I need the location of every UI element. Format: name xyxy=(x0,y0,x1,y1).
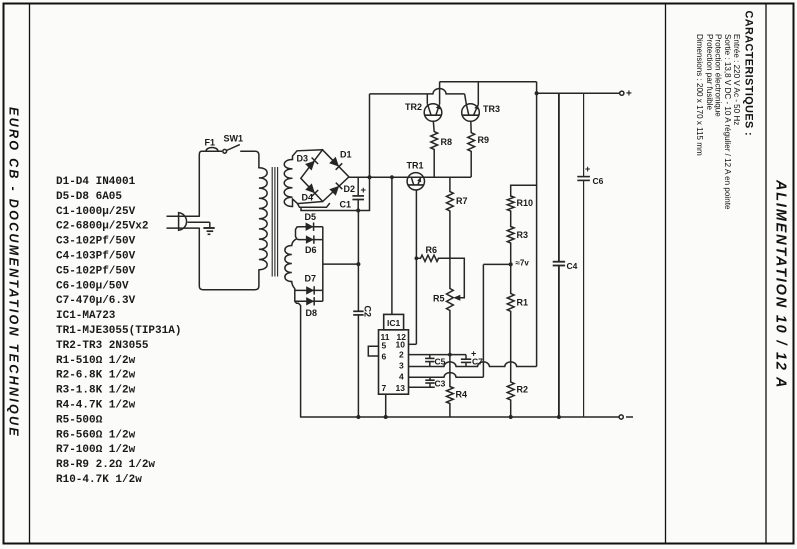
bridge rectifier diamond xyxy=(301,150,349,202)
wire sense rail xyxy=(536,82,538,367)
wire 7v tap xyxy=(483,263,510,265)
transistor TR2 xyxy=(424,104,442,122)
wire output plus xyxy=(537,92,620,94)
capacitor C1 xyxy=(357,177,359,195)
capacitor C3 xyxy=(429,377,431,380)
svg-text:TR1: TR1 xyxy=(407,161,424,171)
svg-text:IC1-MA723: IC1-MA723 xyxy=(56,310,116,322)
wire pin4 riser xyxy=(482,264,484,377)
svg-text:CARACTERISTIQUES :: CARACTERISTIQUES : xyxy=(743,11,755,137)
wire bridge enclosure xyxy=(293,150,323,160)
svg-text:C7: C7 xyxy=(472,357,483,367)
svg-text:D4: D4 xyxy=(302,193,314,203)
wire primary loop xyxy=(199,151,204,216)
svg-text:EURO CB - DOCUMENTATION TECHNI: EURO CB - DOCUMENTATION TECHNIQUE xyxy=(6,107,20,438)
svg-text:C4-103Pf/50V: C4-103Pf/50V xyxy=(56,251,136,263)
svg-text:D8: D8 xyxy=(306,308,318,318)
svg-text:D7: D7 xyxy=(305,274,317,284)
node output rail xyxy=(535,91,539,95)
node TR1 base xyxy=(390,175,394,179)
svg-text:5: 5 xyxy=(382,340,387,350)
svg-text:R2-6.8K 1/2w: R2-6.8K 1/2w xyxy=(56,370,136,382)
switch SW1 xyxy=(223,149,227,153)
node C2 tap xyxy=(356,262,360,266)
svg-text:D5: D5 xyxy=(305,212,317,222)
wire pin 7 to ground bus xyxy=(385,394,387,417)
svg-text:D2: D2 xyxy=(344,184,356,194)
svg-text:7: 7 xyxy=(382,383,387,393)
node bus R2 xyxy=(509,415,513,419)
svg-text:C7-470µ/6.3V: C7-470µ/6.3V xyxy=(56,295,136,307)
svg-text:TR1-MJE3055(TIP31A): TR1-MJE3055(TIP31A) xyxy=(56,325,181,337)
svg-text:R5-500Ω: R5-500Ω xyxy=(56,414,103,426)
svg-text:R9: R9 xyxy=(478,135,490,145)
svg-text:C4: C4 xyxy=(567,261,578,271)
transformer core xyxy=(271,167,273,277)
diode D3 xyxy=(305,161,315,171)
svg-text:C6-100µ/50V: C6-100µ/50V xyxy=(56,280,129,292)
svg-text:C5-102Pf/50V: C5-102Pf/50V xyxy=(56,265,136,277)
wire D7 D8 cell xyxy=(292,282,301,418)
wire R5 wiper xyxy=(439,258,465,298)
svg-text:TR2-TR3 2N3055: TR2-TR3 2N3055 xyxy=(56,340,149,352)
wire base rail xyxy=(370,93,434,95)
svg-text:R3-1.8K 1/2w: R3-1.8K 1/2w xyxy=(56,385,136,397)
svg-text:R3: R3 xyxy=(517,230,529,240)
column rule characteristics/title xyxy=(765,4,767,543)
resistor R1 xyxy=(510,264,512,293)
svg-text:10: 10 xyxy=(396,339,406,349)
resistor R4 xyxy=(447,387,454,404)
resistor R3 xyxy=(510,211,512,227)
mains plug P1 xyxy=(179,213,187,231)
svg-text:C1-1000µ/25V: C1-1000µ/25V xyxy=(56,206,136,218)
svg-text:F1: F1 xyxy=(205,138,216,148)
svg-text:SW1: SW1 xyxy=(224,134,244,144)
svg-text:3: 3 xyxy=(399,361,404,371)
svg-text:4: 4 xyxy=(399,371,404,381)
wire TR1 base xyxy=(391,177,393,314)
diode D8 xyxy=(306,297,314,305)
wire pin 2 xyxy=(409,354,467,356)
svg-text:R7: R7 xyxy=(456,196,468,206)
svg-text:R1-510Ω 1/2w: R1-510Ω 1/2w xyxy=(56,355,136,367)
wire pin 3 xyxy=(409,366,445,368)
node 7v xyxy=(509,262,513,266)
capacitor C4 xyxy=(558,93,560,261)
svg-text:6: 6 xyxy=(382,351,387,361)
transistor TR3 xyxy=(462,104,480,122)
diode D1 xyxy=(329,157,339,167)
svg-text:Entrée : 220 V Ac - 50 Hz: Entrée : 220 V Ac - 50 Hz xyxy=(732,34,741,125)
wire D6-D7 junction to C2 xyxy=(323,263,359,265)
svg-text:R6: R6 xyxy=(426,245,438,255)
transformer secondary winding 2 xyxy=(285,246,292,282)
svg-text:R5: R5 xyxy=(433,294,445,304)
node R6 tap xyxy=(415,256,419,260)
wire collector rail xyxy=(440,81,537,83)
svg-text:R4: R4 xyxy=(456,390,468,400)
diode D2 xyxy=(329,186,339,196)
svg-text:+: + xyxy=(361,185,367,196)
svg-text:13: 13 xyxy=(396,383,406,393)
op-amp regulator IC1 xyxy=(379,330,409,394)
svg-text:R10: R10 xyxy=(517,198,534,208)
wire pins 5-6 strap xyxy=(368,346,378,356)
transformer primary winding xyxy=(259,168,267,270)
wire pin 4 xyxy=(409,376,445,378)
wire pin 13 xyxy=(409,386,435,388)
svg-text:R8-R9 2.2Ω 1/2w: R8-R9 2.2Ω 1/2w xyxy=(56,459,155,471)
wire ground bus xyxy=(301,416,619,418)
node bus C2 xyxy=(356,415,360,419)
terminal output - xyxy=(619,415,623,419)
wire node riser xyxy=(369,94,371,211)
svg-text:R10-4.7K 1/2w: R10-4.7K 1/2w xyxy=(56,474,142,486)
svg-text:2: 2 xyxy=(399,349,404,359)
diode D5 xyxy=(306,223,314,231)
svg-text:Protection par fusible: Protection par fusible xyxy=(705,34,714,111)
wire D5 D6 cell xyxy=(296,227,300,240)
wire secondary2 top xyxy=(292,239,296,245)
svg-text:D6: D6 xyxy=(305,245,317,255)
resistor R8 xyxy=(431,132,438,150)
svg-text:TR2: TR2 xyxy=(405,102,422,112)
fuse F1 xyxy=(206,147,218,151)
svg-text:C6: C6 xyxy=(593,176,604,186)
svg-text:R2: R2 xyxy=(517,385,529,395)
column rule left xyxy=(29,4,31,543)
node C1 bottom xyxy=(356,209,360,213)
svg-text:Sortie : 13,8 V DC - 10 A régu: Sortie : 13,8 V DC - 10 A régulier / 12 … xyxy=(723,34,732,210)
node pin2/R5 xyxy=(448,353,452,357)
svg-text:+: + xyxy=(585,164,590,174)
ground xyxy=(188,221,210,223)
resistor R6 xyxy=(416,257,420,259)
svg-text:C5: C5 xyxy=(435,357,446,367)
resistor R2 xyxy=(507,382,514,400)
svg-text:≈7v: ≈7v xyxy=(516,259,530,268)
resistor R7 xyxy=(449,177,451,191)
wire pin 10 xyxy=(409,343,417,345)
node bridge output xyxy=(368,175,372,179)
svg-text:ALIMENTATION 10 / 12 A: ALIMENTATION 10 / 12 A xyxy=(773,179,789,389)
wire bridge bottom xyxy=(301,207,370,210)
svg-text:D1-D4 IN4001: D1-D4 IN4001 xyxy=(56,176,136,188)
svg-text:C3-102Pf/50V: C3-102Pf/50V xyxy=(56,236,136,248)
column rule schematic/characteristics xyxy=(665,4,667,543)
capacitor C7 xyxy=(465,355,467,359)
svg-text:C1: C1 xyxy=(340,200,352,210)
transformer secondary winding 1 xyxy=(284,160,292,207)
svg-text:D1: D1 xyxy=(340,150,352,160)
terminal output + xyxy=(620,91,624,95)
capacitor C6 xyxy=(583,93,585,176)
svg-text:C3: C3 xyxy=(435,379,446,389)
svg-text:IC1: IC1 xyxy=(387,318,401,328)
svg-text:D5-D8 6A05: D5-D8 6A05 xyxy=(56,191,122,203)
diode D4 xyxy=(305,183,315,193)
svg-text:C2-6800µ/25Vx2: C2-6800µ/25Vx2 xyxy=(56,221,148,233)
svg-text:R4-4.7K 1/2w: R4-4.7K 1/2w xyxy=(56,400,136,412)
svg-text:R1: R1 xyxy=(517,298,529,308)
svg-text:R7-100Ω 1/2w: R7-100Ω 1/2w xyxy=(56,444,136,456)
capacitor C5 xyxy=(429,355,431,359)
diode D7 xyxy=(306,286,314,294)
potentiometer R5 xyxy=(447,289,454,311)
svg-text:R8: R8 xyxy=(441,137,453,147)
svg-text:+: + xyxy=(626,89,632,100)
node bus C4 xyxy=(557,415,561,419)
diode D6 xyxy=(306,235,314,243)
svg-text:D3: D3 xyxy=(297,154,309,164)
wire raw DC rail xyxy=(349,176,471,178)
svg-text:R6-560Ω 1/2w: R6-560Ω 1/2w xyxy=(56,429,136,441)
svg-text:Dimensions : 200 x 170 x 115 m: Dimensions : 200 x 170 x 115 mm xyxy=(695,34,704,156)
svg-text:TR3: TR3 xyxy=(483,104,500,114)
node bus pin7 xyxy=(384,415,388,419)
resistor R10 xyxy=(511,185,537,196)
svg-text:C2: C2 xyxy=(363,306,373,318)
transistor TR1 xyxy=(407,173,424,190)
resistor R9 xyxy=(468,133,475,152)
capacitor C2 xyxy=(357,211,359,311)
